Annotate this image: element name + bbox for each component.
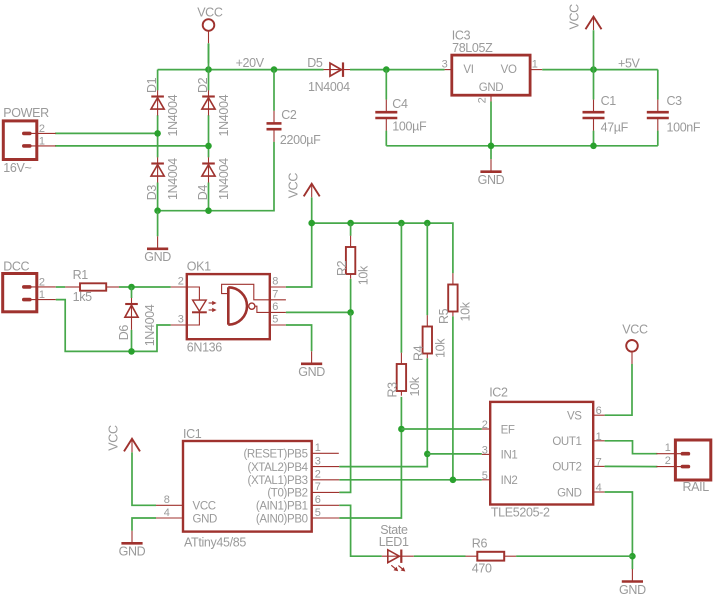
svg-text:D5: D5 [307,56,323,70]
svg-text:GND: GND [478,173,505,187]
junction VCC rail / arrow [308,220,315,227]
wire rail to R4 top [426,223,428,315]
svg-text:R4: R4 [412,345,426,361]
ground [298,351,325,379]
svg-text:R6: R6 [472,536,488,550]
wire D4 to bottom rail [208,183,210,211]
junction R5 / IN2 [450,477,457,484]
svg-text:5: 5 [315,507,321,519]
svg-text:POWER: POWER [3,106,49,120]
svg-text:2: 2 [39,276,45,288]
wire POWER pin1 to AC2 node [55,145,208,147]
svg-text:VO: VO [501,64,517,76]
svg-text:DCC: DCC [3,260,29,274]
wire R5 bottom to IN2 net [452,316,454,480]
capacitor C2 [267,111,282,142]
junction AC2 [205,143,212,150]
svg-text:VCC: VCC [107,425,121,451]
svg-text:5: 5 [482,470,488,482]
svg-text:3: 3 [178,314,184,326]
svg-text:16V~: 16V~ [3,161,31,175]
wire PB0 to EF net [339,429,401,518]
svg-text:1: 1 [39,289,45,301]
diode D4 [202,157,215,182]
wire DCC pin2 to R1 [56,286,66,288]
capacitor C3 [647,100,669,131]
svg-text:2: 2 [482,419,488,431]
svg-text:100µF: 100µF [392,119,427,133]
svg-text:1: 1 [39,135,45,147]
diode D1 [151,90,164,115]
svg-text:R2: R2 [335,260,349,276]
wire IC3 GND pin down [490,102,492,160]
wire C4 to gnd rail [385,131,387,146]
junction gnd rail / IC3 [488,143,495,150]
connector POWER [3,121,56,160]
svg-text:1: 1 [315,442,321,454]
connector DCC [3,274,56,312]
svg-text:D6: D6 [117,325,131,341]
svg-text:GND: GND [619,583,646,597]
wire +20V rail left [158,69,324,71]
junction GND net / R6 [629,553,636,560]
svg-text:VCC: VCC [197,6,223,20]
IC IC2 TLE5205-2 [482,402,605,505]
svg-text:GND: GND [144,250,171,264]
wire R4 bottom to IN1 net [426,358,428,454]
svg-text:OK1: OK1 [187,260,211,274]
diode D3 [151,157,164,182]
capacitor C1 [583,100,605,131]
svg-text:6N136: 6N136 [187,341,222,355]
svg-text:6: 6 [315,494,321,506]
diode D5 [324,62,351,77]
wire junction to D6 [131,287,133,298]
svg-text:7: 7 [272,288,278,300]
VCC supply arrow [287,173,320,199]
wire VCC arrow to IC1 pin8 [132,452,156,505]
svg-text:RAIL: RAIL [683,480,710,494]
svg-text:2: 2 [477,97,489,103]
svg-text:(T0)PB2: (T0)PB2 [267,488,307,500]
VCC supply [622,323,648,365]
svg-text:OUT1: OUT1 [552,436,581,448]
svg-text:2: 2 [665,455,671,467]
junction R2 / OK1 pin6 / PB2 [347,309,354,316]
svg-text:+5V: +5V [618,56,641,70]
svg-text:EF: EF [501,424,515,436]
svg-text:R5: R5 [437,308,451,324]
wire +5V to C3 [657,70,659,100]
wire D5 to IC3 VI [350,69,445,71]
junction D6 bottom [128,348,135,355]
svg-text:TLE5205-2: TLE5205-2 [491,506,550,520]
diode D6 [125,298,138,330]
junction +5V / C1 / VCC [590,66,597,73]
svg-text:7: 7 [315,481,321,493]
junction AC1 [154,130,161,137]
diode D2 [202,90,215,115]
resistor R6 [466,552,517,561]
svg-text:(XTAL2)PB4: (XTAL2)PB4 [247,462,308,474]
wire DCC pin1 to OK1 cathode [56,300,171,352]
svg-text:D4: D4 [196,185,210,201]
svg-text:1: 1 [665,442,671,454]
wire EF to junction [401,428,481,430]
svg-text:D1: D1 [145,77,159,93]
svg-text:VCC: VCC [287,173,301,199]
svg-text:VI: VI [463,64,473,76]
resistor R4 [423,315,432,358]
svg-text:GND: GND [193,513,218,525]
wire VCC col to D2 [208,44,210,90]
svg-text:1N4004: 1N4004 [217,94,231,136]
ground below bridge [144,236,171,264]
svg-text:LED1: LED1 [379,535,409,549]
wire PB3 to IN2 [339,479,482,481]
ground below IC1 [119,531,146,559]
wire OK1 pin5 to ground [286,325,312,351]
wire OUT1 to RAIL pin1 [605,441,658,454]
svg-text:5: 5 [272,314,278,326]
svg-text:IN2: IN2 [501,475,518,487]
junction R1 / D6 [128,284,135,291]
svg-text:R3: R3 [386,382,400,398]
wire bridge bottom rail to C2 [158,142,274,211]
svg-text:1N4004: 1N4004 [217,158,231,200]
svg-text:10k: 10k [459,301,473,321]
svg-text:VCC: VCC [193,501,216,513]
wire OK1 pin6 to junction [286,311,351,313]
svg-text:2200µF: 2200µF [280,133,321,147]
wire to GND symbol [157,211,159,237]
wire +20V to C2 top [273,70,275,111]
capacitor C4 [375,100,397,131]
wire R1 to OK1 anode [119,286,171,288]
VCC supply arrow [568,4,602,30]
svg-text:IC2: IC2 [489,385,508,399]
wire rail to R2 top [350,223,352,236]
svg-text:GND: GND [557,487,582,499]
wire +5V rail [542,69,658,71]
wire C1 to gnd rail [593,131,595,146]
wire OUT2 to RAIL pin2 [605,465,658,467]
wire D1 to D3 via AC1 [157,115,159,157]
resistor R3 [397,353,406,396]
svg-text:(XTAL1)PB3: (XTAL1)PB3 [247,475,307,487]
wire R6 to GND net [516,555,632,557]
svg-text:3: 3 [315,455,321,467]
svg-text:1N4004: 1N4004 [143,304,157,346]
svg-text:10k: 10k [356,265,370,285]
svg-text:2: 2 [39,123,45,135]
connector RAIL [656,440,710,480]
svg-text:4: 4 [164,507,170,519]
svg-text:1N4004: 1N4004 [308,80,350,94]
junction +20V / D2 column [205,66,212,73]
junction +20V / C2 [271,66,278,73]
junction VCC rail / R4 [424,220,431,227]
wire rail to D1 [157,70,159,91]
svg-text:(AIN0)PB0: (AIN0)PB0 [256,513,308,525]
svg-text:C1: C1 [601,94,617,108]
svg-text:2: 2 [315,469,321,481]
svg-text:(RESET)PB5: (RESET)PB5 [243,449,307,461]
svg-text:4: 4 [596,482,602,494]
junction VCC rail / R2 [347,220,354,227]
wire junction down to IC1 PB2 [339,312,350,492]
junction gnd rail / C1 [590,143,597,150]
junction VCC rail / R3 [398,220,405,227]
wire LED1 to R6 [414,555,466,557]
svg-text:D2: D2 [196,77,210,93]
ground below IC2 [619,569,646,597]
svg-text:GND: GND [479,82,504,94]
svg-text:(AIN1)PB1: (AIN1)PB1 [256,501,308,513]
svg-text:1: 1 [596,431,602,443]
svg-text:C2: C2 [281,108,297,122]
resistor R2 [346,236,355,279]
svg-text:IC1: IC1 [183,427,202,441]
wire VCC arrow to +5V rail [593,30,595,99]
wire VCC to IC2 VS [605,364,632,415]
svg-text:D3: D3 [145,185,159,201]
svg-text:VCC: VCC [622,323,648,337]
svg-text:1: 1 [532,58,538,70]
wire VCC arrow to rail [311,197,313,223]
svg-text:47µF: 47µF [601,121,629,135]
wire +20V to C4 [385,70,387,100]
svg-text:78L05Z: 78L05Z [452,41,493,55]
junction bottom rail / GND [154,207,161,214]
svg-text:C3: C3 [667,94,683,108]
svg-text:1k5: 1k5 [73,290,93,304]
wire IC1 pin4 to ground [132,518,156,531]
junction bottom rail / D4 [205,207,212,214]
svg-text:10k: 10k [408,376,422,396]
wire POWER pin2 to AC1 node [55,132,158,134]
VCC supply [197,6,223,44]
wire OK1 pin8 to VCC rail [286,223,312,287]
wire PB1 to LED1 [339,505,382,556]
svg-text:8: 8 [272,276,278,288]
svg-text:R1: R1 [73,268,89,282]
svg-text:GND: GND [298,365,325,379]
wire IC2 GND down [605,492,633,569]
svg-text:1N4004: 1N4004 [166,158,180,200]
optocoupler OK1 6N136 [171,274,286,339]
wire VCC to +20V rail [208,43,210,63]
svg-text:3: 3 [442,58,448,70]
wire rail to R3 top [400,223,402,353]
svg-text:2: 2 [178,276,184,288]
svg-text:VCC: VCC [568,4,582,30]
svg-text:10k: 10k [433,338,447,358]
junction R3 / EF / PB0 [398,426,405,433]
wire R2 bottom to pin6 net [350,279,352,313]
junction R4 / IN1 [424,451,431,458]
svg-text:3: 3 [482,444,488,456]
svg-text:IN1: IN1 [501,450,518,462]
svg-text:100nF: 100nF [667,121,701,135]
svg-text:OUT2: OUT2 [552,462,581,474]
ground below IC3 [478,159,505,187]
op-amp IC3 78L05Z regulator [445,55,543,101]
svg-text:470: 470 [472,562,492,576]
junction +20V / C4 [383,66,390,73]
wire capacitor ground rail [386,145,658,147]
wire C3 to gnd rail [657,131,659,146]
svg-text:GND: GND [119,545,146,559]
svg-text:6: 6 [596,405,602,417]
wire D6 to bottom [131,330,133,352]
svg-text:+20V: +20V [236,56,265,70]
svg-text:1N4004: 1N4004 [166,94,180,136]
wire R3 bottom to EF net [400,397,402,429]
resistor R1 [65,283,119,290]
wire VCC rail to R5 [312,223,453,273]
VCC supply arrow [107,425,140,452]
IC IC1 ATtiny45/85 [156,441,339,532]
svg-text:6: 6 [272,301,278,313]
wire D2 to D4 via AC2 [208,115,210,157]
svg-text:C4: C4 [392,97,408,111]
wire PB4 to IN1 net [339,454,427,467]
svg-text:7: 7 [596,456,602,468]
svg-text:8: 8 [164,494,170,506]
svg-text:ATtiny45/85: ATtiny45/85 [184,536,246,550]
wire IN1 to junction [427,453,482,455]
svg-text:VS: VS [567,411,582,423]
wire D3 to bottom rail [157,183,159,211]
LED LED1 State [382,550,414,572]
resistor R5 [448,273,457,316]
